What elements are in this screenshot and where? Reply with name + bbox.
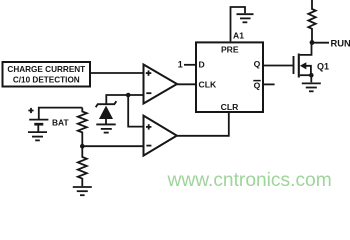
- svg-text:C/10 DETECTION: C/10 DETECTION: [13, 76, 80, 85]
- svg-text:Q: Q: [254, 59, 261, 69]
- svg-text:Q: Q: [254, 80, 261, 90]
- svg-text:RUN: RUN: [331, 37, 350, 48]
- svg-text:CHARGE CURRENT: CHARGE CURRENT: [7, 65, 85, 74]
- svg-text:CLK: CLK: [199, 79, 217, 89]
- svg-text:Q1: Q1: [317, 61, 329, 71]
- svg-text:1: 1: [178, 60, 183, 70]
- svg-text:A1: A1: [233, 30, 244, 40]
- svg-text:BAT: BAT: [52, 117, 69, 127]
- svg-text:www.cntronics.com: www.cntronics.com: [167, 170, 332, 191]
- svg-text:PRE: PRE: [221, 45, 239, 55]
- svg-text:D: D: [199, 60, 205, 70]
- svg-text:CLR: CLR: [221, 102, 239, 112]
